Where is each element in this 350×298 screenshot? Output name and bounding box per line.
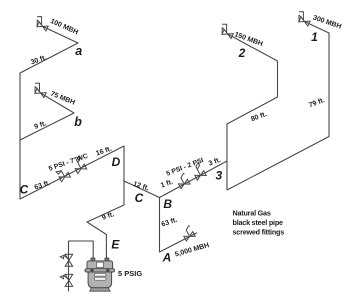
svg-text:black steel pipe: black steel pipe	[233, 218, 284, 227]
svg-text:79 ft.: 79 ft.	[308, 97, 326, 109]
svg-text:2: 2	[238, 46, 246, 60]
svg-text:63 ft.: 63 ft.	[34, 180, 52, 192]
svg-text:5,000 MBH: 5,000 MBH	[174, 242, 210, 258]
svg-text:A: A	[162, 251, 172, 265]
svg-text:3: 3	[215, 168, 222, 182]
svg-text:5 PSIG: 5 PSIG	[118, 269, 142, 278]
svg-text:D: D	[112, 155, 121, 169]
svg-text:b: b	[74, 115, 82, 129]
svg-text:63 ft.: 63 ft.	[161, 217, 179, 229]
svg-text:screwed fittings: screwed fittings	[233, 227, 285, 236]
svg-text:75 MBH: 75 MBH	[49, 91, 75, 107]
svg-text:E: E	[111, 237, 120, 251]
svg-text:Natural Gas: Natural Gas	[233, 208, 271, 217]
svg-text:30 ft.: 30 ft.	[30, 54, 48, 66]
svg-text:5 PSI - 7"WC: 5 PSI - 7"WC	[48, 153, 89, 173]
svg-text:300 MBH: 300 MBH	[312, 14, 342, 30]
svg-text:1 ft.: 1 ft.	[160, 179, 174, 190]
svg-text:100 MBH: 100 MBH	[49, 18, 79, 36]
svg-text:80 ft.: 80 ft.	[250, 111, 268, 123]
svg-text:C: C	[135, 191, 144, 205]
svg-text:9 ft.: 9 ft.	[101, 211, 115, 222]
svg-text:B: B	[163, 197, 172, 211]
svg-text:a: a	[75, 44, 82, 58]
svg-text:C: C	[20, 183, 29, 197]
svg-text:3 ft.: 3 ft.	[208, 157, 222, 168]
svg-text:1: 1	[311, 30, 318, 44]
